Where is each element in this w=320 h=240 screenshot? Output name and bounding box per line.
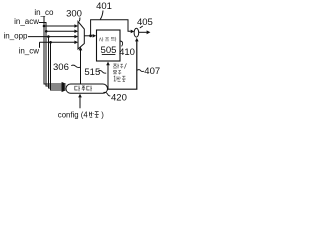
svg-text:config (4: config (4 — [58, 110, 89, 119]
decoder stadium 420 — [66, 84, 108, 93]
wire in_cw stub up — [39, 42, 41, 48]
glyphs left/right 1bit (kr) 3 lines — [113, 63, 126, 81]
line3: 1bit — [114, 76, 126, 81]
arrowhead select into mux — [79, 47, 83, 51]
wire config arrow into decoder bottom — [79, 97, 81, 108]
arrowhead into 505 — [93, 34, 97, 38]
svg-text:515: 515 — [84, 67, 100, 78]
junction dot mux output — [89, 34, 92, 37]
wire in_opp drop and bottom run — [48, 37, 62, 88]
line1: jwacheuk/ — [113, 63, 126, 68]
wire in_cw horizontal to mux — [40, 41, 76, 43]
wire output from oval — [139, 31, 147, 33]
pointer line 401 — [100, 11, 103, 20]
wire in_acw elbow, drop and bottom run — [39, 22, 62, 86]
wire mux output to shift register — [84, 35, 92, 37]
wire decoder output to oval select — [104, 41, 137, 89]
output oval 405 — [134, 28, 139, 37]
svg-text:in_opp: in_opp — [3, 31, 28, 40]
svg-text:405: 405 — [137, 17, 153, 28]
junction dot in_opp — [47, 35, 50, 38]
line2: ucheuk — [113, 70, 121, 74]
arrowhead 515 into 505 — [106, 62, 110, 66]
junction dot in_cw — [49, 41, 52, 44]
wire in_acw horizontal to mux — [46, 30, 75, 32]
svg-text:in_acw: in_acw — [14, 17, 39, 26]
wire in_opp horizontal to mux — [28, 36, 75, 38]
wire in_co horizontal to mux — [44, 25, 75, 27]
glyphs bit(kr) — [89, 112, 98, 118]
wire in_cw drop and bottom run — [51, 42, 62, 90]
svg-text:306: 306 — [53, 62, 69, 73]
arrowheads into decoder left end — [62, 82, 67, 86]
arrowhead config — [78, 94, 82, 98]
wire 401 bypass up and over — [91, 20, 131, 36]
arrowhead output — [147, 30, 151, 34]
pointer line 405 — [140, 26, 143, 28]
wire 515 from decoder output up into 505 — [107, 64, 109, 90]
pointer line 300 — [78, 18, 81, 22]
mux U300 trapezoid — [78, 22, 84, 50]
wire in_co vertical drop and bottom run to decoder — [44, 17, 62, 85]
wire mux select from decoder top to mux bottom — [80, 50, 82, 85]
glyphs shift(kr) in box — [99, 37, 116, 42]
svg-text:401: 401 — [96, 1, 112, 12]
arrowhead bypass into oval — [131, 30, 135, 34]
svg-text:410: 410 — [119, 47, 135, 58]
svg-text:407: 407 — [144, 66, 160, 77]
squiggle 410 — [120, 41, 122, 46]
squiggle 515 — [98, 70, 106, 73]
junction dot in_acw — [45, 30, 48, 33]
arrowhead up into oval bottom — [135, 38, 139, 42]
svg-text:420: 420 — [111, 93, 127, 104]
squiggle 407 — [137, 70, 144, 72]
svg-text:in_cw: in_cw — [19, 46, 40, 55]
junction dot in_co — [43, 25, 46, 28]
squiggle 306 — [71, 65, 80, 67]
shift register box 505 — [97, 30, 121, 61]
svg-text:in_co: in_co — [34, 8, 54, 17]
arrowheads into mux left edge — [74, 24, 78, 28]
glyphs decoder(kr) in stadium — [75, 86, 92, 92]
squiggle 420 — [103, 92, 110, 96]
svg-text:): ) — [101, 110, 104, 119]
